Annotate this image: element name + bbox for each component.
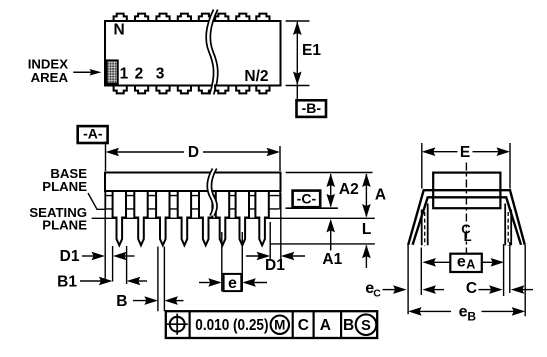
svg-text:D1: D1 <box>60 248 80 265</box>
side view right: top extension line <box>286 172 373 174</box>
svg-text:A: A <box>375 187 386 204</box>
svg-text:E: E <box>460 144 470 161</box>
svg-text:D: D <box>188 144 199 161</box>
svg-text:1: 1 <box>120 66 129 83</box>
dimension A1 <box>365 246 367 269</box>
dimension e (lead pitch, boxed) <box>199 282 214 284</box>
position symbol <box>170 317 185 332</box>
top view: index area (pin 1 mark) <box>107 60 118 83</box>
end view: package body outline <box>433 173 500 209</box>
dimension E (end view width) <box>421 143 423 189</box>
top view: package body outline <box>105 21 281 86</box>
side view: base plane lines in lead gaps <box>106 195 280 197</box>
side view: leads (wide shoulder + narrow tapered tip) <box>113 191 269 245</box>
end view: lead frame shoulder + splayed leads (inner) <box>413 197 521 245</box>
top view: package pins (bottom row, left of break) <box>114 85 212 94</box>
svg-text:S: S <box>361 318 371 334</box>
svg-text:C: C <box>373 287 381 299</box>
end view: centerline <box>465 163 467 254</box>
dimension A2 <box>330 174 332 207</box>
end view: lead centerlines (dashed) <box>424 212 426 246</box>
svg-text:L: L <box>464 229 472 244</box>
dimension L <box>330 222 332 251</box>
side view: package body outline <box>105 173 281 192</box>
svg-text:0.010 (0.25): 0.010 (0.25) <box>195 317 268 334</box>
dimension eA (boxed) <box>420 248 422 296</box>
datum -A- <box>78 126 108 143</box>
lead tip extension line <box>270 243 375 245</box>
top view: break (wavy) lines <box>206 10 218 95</box>
dimension A <box>365 174 367 217</box>
svg-text:2: 2 <box>135 66 144 83</box>
side view: seating plane line <box>92 217 375 219</box>
dimension eB <box>408 307 422 316</box>
svg-text:3: 3 <box>156 66 165 83</box>
svg-text:PLANE: PLANE <box>42 179 87 194</box>
svg-text:e: e <box>228 275 237 292</box>
top view: package pins (top row, left of break) <box>114 14 212 22</box>
svg-text:A: A <box>466 258 475 272</box>
top view: body edges right of break (redraw over pin fills) <box>214 20 281 22</box>
dimension D (side view length) <box>105 142 107 172</box>
svg-text:B: B <box>467 309 476 323</box>
top view: package pins (bottom row, right of break) <box>215 85 269 94</box>
extension lines for eC / C / eB <box>407 243 409 314</box>
datum -B- <box>296 86 298 101</box>
extension lines below side view (right) <box>269 222 271 260</box>
svg-text:PLANE: PLANE <box>42 218 87 233</box>
extension lines from lead centers (for e) <box>221 232 223 292</box>
end view: lead frame shoulder + splayed leads (outer) <box>408 190 525 245</box>
svg-text:A: A <box>320 317 331 334</box>
svg-text:e: e <box>457 253 466 270</box>
side view: body edge closures of end gaps <box>104 191 106 209</box>
svg-text:E1: E1 <box>302 42 321 59</box>
svg-text:-B-: -B- <box>302 100 322 116</box>
side view: break (wavy) lines <box>207 169 217 216</box>
svg-text:N: N <box>114 22 125 39</box>
top view: package pins (top row, right of break) <box>215 14 269 22</box>
svg-text:C: C <box>466 280 477 297</box>
end view: front leads <box>421 210 423 246</box>
svg-text:INDEX: INDEX <box>28 56 69 71</box>
svg-text:-A-: -A- <box>83 125 103 141</box>
svg-text:D1: D1 <box>265 257 285 274</box>
svg-text:B1: B1 <box>57 273 77 290</box>
svg-text:e: e <box>459 304 468 321</box>
svg-text:B: B <box>343 317 354 334</box>
svg-text:B: B <box>116 293 127 310</box>
svg-text:L: L <box>362 221 371 238</box>
svg-text:A2: A2 <box>339 181 359 198</box>
svg-text:M: M <box>274 318 285 333</box>
feature control frame box <box>166 311 377 338</box>
svg-text:A1: A1 <box>322 251 342 268</box>
svg-text:N/2: N/2 <box>244 68 268 85</box>
extension lines below side view (left) <box>104 210 106 282</box>
svg-text:-C-: -C- <box>297 190 317 206</box>
svg-text:AREA: AREA <box>31 70 69 85</box>
dimension E1 (top view width) <box>286 20 310 22</box>
datum -C- on its extension line <box>286 207 338 209</box>
svg-text:C: C <box>298 317 309 334</box>
